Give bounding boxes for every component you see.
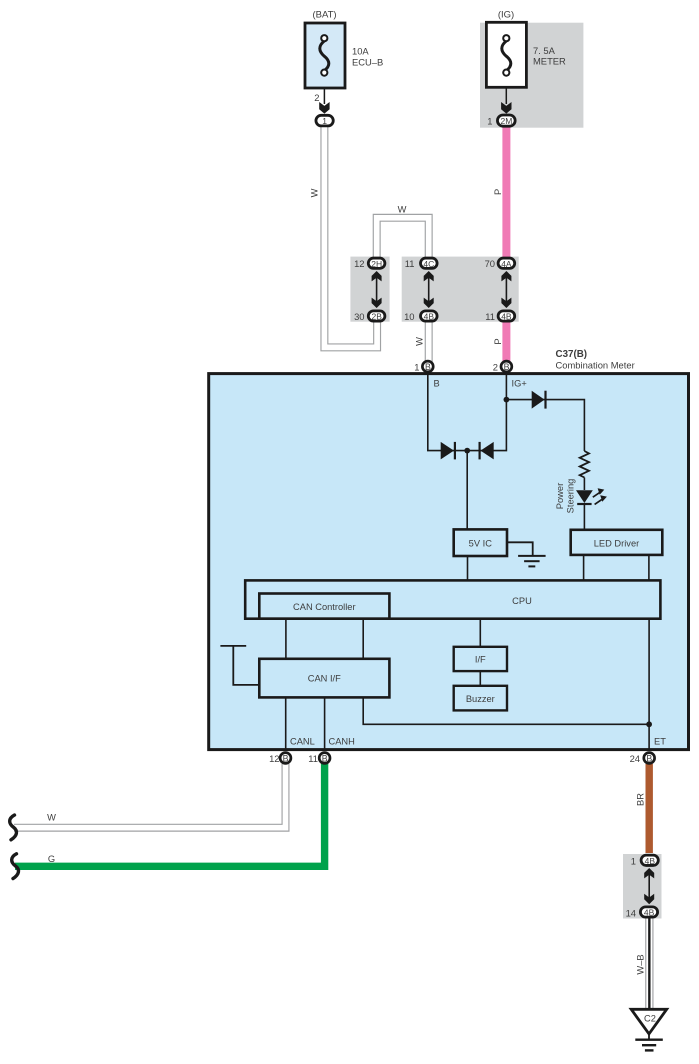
gray connector block 4C/4B/4A/4B [402, 257, 519, 322]
5V IC box [454, 529, 507, 556]
svg-text:2M: 2M [500, 116, 512, 126]
gray connector background IG [480, 23, 583, 128]
svg-text:10: 10 [404, 311, 414, 322]
arrows 4B-4B [644, 868, 654, 904]
connector oval 1 [316, 115, 333, 126]
I/F box [454, 647, 507, 671]
fuse METER (IG) [486, 10, 566, 127]
wire W from fuse BAT down to 2B [324, 124, 377, 347]
svg-text:(IG): (IG) [498, 10, 514, 21]
svg-text:ECU–B: ECU–B [352, 56, 383, 67]
gray connector block 2H/2B [350, 257, 389, 322]
svg-text:2B: 2B [371, 312, 382, 322]
LED to driver [583, 504, 585, 530]
svg-text:4B: 4B [424, 312, 435, 322]
5V IC to CPU [467, 556, 469, 580]
svg-text:W: W [47, 813, 56, 823]
svg-text:11: 11 [485, 311, 495, 322]
svg-text:30: 30 [354, 311, 364, 322]
CAN Controller box [259, 594, 389, 619]
svg-text:C2: C2 [644, 1014, 656, 1024]
wire fuse to connector [323, 88, 325, 104]
svg-text:METER: METER [533, 55, 566, 66]
CAN controller legs [285, 619, 287, 659]
fuse element symbol [502, 41, 511, 71]
svg-text:CAN Controller: CAN Controller [293, 602, 356, 612]
LED light arrows [593, 488, 607, 504]
svg-text:1: 1 [631, 856, 636, 867]
connector 4C [405, 258, 437, 269]
connector 4B bottom 1 [631, 855, 659, 866]
connector oval 2M [497, 115, 515, 126]
svg-text:B: B [434, 379, 440, 389]
svg-text:P: P [493, 338, 503, 344]
svg-text:B: B [646, 754, 652, 764]
svg-text:1: 1 [322, 116, 327, 126]
fuse body METER [486, 22, 526, 87]
5V IC ground [507, 542, 533, 555]
svg-text:W: W [415, 337, 425, 346]
svg-text:12: 12 [269, 753, 279, 764]
LED power steering indicator [576, 490, 593, 504]
fuse element symbol [320, 41, 329, 71]
junction dot node A [464, 448, 470, 454]
svg-text:4A: 4A [501, 259, 512, 269]
svg-text:(BAT): (BAT) [312, 10, 336, 21]
svg-text:W: W [398, 205, 407, 215]
svg-text:ET: ET [654, 737, 666, 747]
Buzzer box [454, 686, 507, 711]
svg-text:2H: 2H [371, 259, 382, 269]
svg-text:BR: BR [636, 793, 646, 806]
svg-text:G: G [48, 854, 55, 864]
svg-text:B: B [425, 362, 431, 372]
ground C2 [631, 1009, 667, 1034]
svg-text:CANH: CANH [329, 737, 355, 747]
pin 24 B [630, 753, 655, 764]
connector 4B bottom 14 [626, 907, 658, 919]
svg-text:I/F: I/F [475, 655, 486, 665]
svg-text:Combination Meter: Combination Meter [556, 360, 635, 371]
svg-text:70: 70 [485, 258, 495, 269]
CAN I/F legs down [285, 697, 287, 751]
svg-text:LED Driver: LED Driver [594, 539, 639, 549]
fuse body ECU-B [305, 23, 345, 88]
junction dot IG+ [504, 397, 510, 403]
svg-text:1: 1 [414, 362, 419, 373]
wire BR [646, 764, 653, 853]
pin 12 B [269, 753, 291, 764]
arrows 4A-4B [501, 271, 511, 308]
svg-text:W: W [309, 188, 319, 197]
combination meter box C37(B) [209, 374, 689, 750]
IG+ branch to resistor [506, 400, 584, 451]
wire W from 4B down to pin 1 B [425, 318, 433, 363]
connector arrow [319, 102, 329, 114]
svg-text:10A: 10A [352, 45, 369, 56]
wire fuse to connector [505, 87, 507, 104]
svg-text:C37(B): C37(B) [556, 349, 588, 360]
break squiggle W [10, 815, 17, 840]
ground hatches 5V IC [518, 556, 546, 567]
antenna T [220, 645, 246, 647]
connector 2H [354, 258, 385, 269]
svg-text:B: B [283, 754, 289, 764]
diode D3 (IG+ branch) [532, 391, 546, 409]
wire W-B [645, 919, 653, 1010]
fuse ECU-B (BAT) [305, 10, 383, 127]
svg-text:Steering: Steering [566, 479, 576, 514]
pin 2 B top [493, 361, 512, 372]
diode D1 (from B) [441, 442, 455, 460]
connector 4A [485, 258, 515, 269]
svg-text:4B: 4B [501, 312, 512, 322]
pin 11 B [308, 753, 330, 764]
svg-text:CAN I/F: CAN I/F [308, 674, 341, 684]
break squiggle G [12, 854, 19, 879]
ET line [648, 619, 650, 751]
arrows 2H-2B [372, 271, 382, 308]
svg-text:14: 14 [626, 908, 636, 919]
svg-text:2: 2 [314, 92, 319, 103]
resistor [580, 451, 589, 478]
svg-text:11: 11 [405, 258, 415, 269]
diode D2 (from IG+) [480, 442, 494, 460]
CAN I/F box [259, 659, 389, 698]
svg-text:CANL: CANL [290, 737, 315, 747]
pin 1 B top [414, 361, 433, 372]
connector 2B [354, 311, 385, 322]
wire W CANL [14, 764, 286, 828]
wire G CANH [15, 762, 325, 866]
interior circuit [220, 373, 649, 751]
svg-text:IG+: IG+ [512, 379, 527, 389]
svg-text:1: 1 [487, 116, 492, 127]
svg-text:W–B: W–B [635, 954, 645, 974]
svg-text:Buzzer: Buzzer [466, 694, 495, 704]
svg-text:B: B [322, 754, 328, 764]
line from dot down to 5V IC [466, 451, 468, 530]
wire W from 2H up over to 4C [377, 218, 429, 262]
arrows 4C-4B [424, 271, 434, 308]
svg-text:P: P [493, 189, 503, 195]
svg-text:2: 2 [493, 362, 498, 373]
svg-text:11: 11 [308, 753, 318, 764]
svg-text:B: B [504, 362, 510, 372]
I/F legs [479, 619, 481, 647]
svg-text:4B: 4B [645, 856, 656, 866]
connector 4B right [485, 311, 514, 322]
wire P pink from 4B to pin 2 B [502, 319, 510, 364]
svg-text:4B: 4B [644, 908, 655, 918]
svg-text:5V IC: 5V IC [469, 539, 493, 549]
svg-text:12: 12 [354, 258, 364, 269]
junction dot ET [646, 721, 652, 727]
connector arrow [501, 102, 511, 114]
svg-text:Power: Power [555, 483, 565, 509]
svg-text:CPU: CPU [512, 596, 532, 606]
gray connector block 4B/4B bottom right [623, 854, 662, 919]
svg-text:24: 24 [630, 753, 640, 764]
resistor to LED [583, 478, 585, 491]
node B line [428, 373, 507, 451]
svg-text:4C: 4C [423, 259, 434, 269]
CPU box [245, 580, 660, 618]
wire P pink from 2M to 4A [502, 123, 510, 259]
LED driver legs [583, 555, 585, 580]
connector 4B [404, 311, 437, 322]
LED Driver box [571, 530, 663, 555]
